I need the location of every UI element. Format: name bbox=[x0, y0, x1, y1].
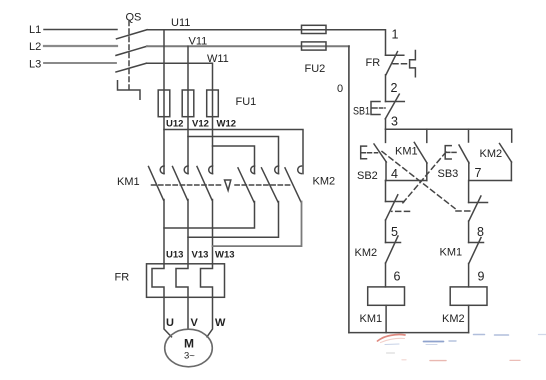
wire node4 rail bbox=[386, 180, 427, 182]
wire U11 bbox=[147, 30, 386, 56]
svg-text:L2: L2 bbox=[29, 41, 41, 53]
SB3 actuator E bbox=[445, 146, 451, 159]
wire KM1 pole2 down bbox=[187, 200, 189, 264]
svg-text:FU1: FU1 bbox=[236, 96, 257, 108]
wire KM2 pole2 to V13 bbox=[188, 202, 279, 238]
svg-text:9: 9 bbox=[478, 270, 485, 284]
wire node 6 bbox=[385, 263, 387, 287]
wire node 8 bbox=[468, 221, 470, 243]
interlock dashed SB3 to left branch bbox=[401, 152, 446, 205]
watermark remnant red swoosh bbox=[378, 335, 546, 361]
svg-text:SB1: SB1 bbox=[353, 106, 370, 118]
wire node3 rail bbox=[386, 128, 512, 130]
svg-text:U: U bbox=[166, 317, 174, 329]
wire L1 bbox=[44, 29, 117, 31]
contactor KM1 pole1 contact bbox=[160, 166, 164, 174]
contactor KM1 pole2 contact bbox=[184, 166, 188, 174]
svg-text:KM1: KM1 bbox=[360, 313, 383, 325]
wire node 3 bbox=[385, 119, 387, 129]
svg-text:QS: QS bbox=[126, 12, 142, 24]
wire node4 down bbox=[385, 181, 387, 202]
svg-text:V: V bbox=[191, 317, 199, 329]
contactor KM1 pole3 contact bbox=[209, 166, 213, 174]
pushbutton SB1 (NC stop) bbox=[386, 101, 405, 103]
svg-text:FR: FR bbox=[366, 57, 381, 69]
switch QS linkage bracket bbox=[118, 81, 141, 99]
svg-text:L3: L3 bbox=[29, 59, 41, 71]
wire node7 rail bbox=[469, 180, 512, 182]
fuse FU2 lower bbox=[302, 42, 327, 50]
contactor KM2 pole3 contact bbox=[298, 166, 302, 174]
wire L2 bbox=[44, 45, 117, 47]
svg-text:SB3: SB3 bbox=[438, 168, 459, 180]
svg-text:KM2: KM2 bbox=[355, 247, 378, 259]
fuse FU2 upper bbox=[302, 25, 327, 33]
pushbutton SB3 (NO start rev) bbox=[468, 129, 470, 142]
svg-text:V13: V13 bbox=[192, 250, 209, 261]
coil KM1 bbox=[368, 287, 405, 305]
interlock dashed SB2 to right branch bbox=[382, 152, 455, 209]
svg-text:KM2: KM2 bbox=[480, 148, 503, 160]
interlock contact KM1 (NC) bbox=[469, 242, 484, 244]
svg-text:0: 0 bbox=[337, 83, 343, 95]
fuse FU1 W bbox=[207, 90, 219, 117]
wire node7 down bbox=[468, 181, 470, 203]
svg-text:M: M bbox=[184, 337, 194, 351]
svg-text:3: 3 bbox=[391, 115, 398, 129]
svg-text:7: 7 bbox=[475, 166, 482, 180]
wire V12 to KM2 mid bbox=[188, 137, 279, 174]
wire node 9 bbox=[468, 264, 470, 287]
svg-text:U13: U13 bbox=[166, 250, 183, 261]
svg-text:V12: V12 bbox=[192, 119, 209, 130]
contactor KM2 pole1 contact bbox=[251, 166, 255, 174]
svg-text:6: 6 bbox=[394, 270, 401, 284]
svg-text:FU2: FU2 bbox=[305, 63, 326, 75]
mechanical link triangle bbox=[225, 180, 231, 190]
svg-text:L1: L1 bbox=[29, 24, 41, 36]
wire node 2 bbox=[385, 75, 387, 102]
svg-text:U11: U11 bbox=[171, 17, 190, 29]
svg-text:KM2: KM2 bbox=[442, 313, 465, 325]
switch QS blade 1 bbox=[117, 30, 148, 39]
svg-text:SB2: SB2 bbox=[357, 170, 378, 182]
wire V11 bbox=[147, 45, 349, 47]
svg-text:3~: 3~ bbox=[184, 351, 195, 362]
wire KM1 coil to rail bbox=[385, 305, 387, 332]
svg-text:U12: U12 bbox=[166, 119, 183, 130]
pushbutton SB2 NC (in KM2 branch) bbox=[469, 202, 488, 204]
svg-text:W: W bbox=[215, 317, 226, 329]
wire U11 branch down bbox=[163, 30, 165, 174]
svg-text:4: 4 bbox=[391, 167, 398, 181]
switch QS linkage dashed bbox=[128, 21, 130, 90]
heater element 2 bbox=[176, 264, 188, 298]
switch QS blade 3 bbox=[116, 63, 147, 72]
svg-text:FR: FR bbox=[115, 272, 130, 284]
svg-text:KM1: KM1 bbox=[395, 146, 418, 158]
coil KM2 bbox=[450, 287, 487, 305]
SB2 actuator E bbox=[361, 146, 367, 159]
wire KM1 pole1 down bbox=[163, 200, 165, 264]
pushbutton SB3 NC (in KM1 branch) bbox=[386, 201, 405, 203]
contactor KM2 pole2 contact bbox=[275, 166, 279, 174]
wire W12 to KM2 left bbox=[213, 146, 255, 174]
pushbutton SB2 (NO start fwd) bbox=[385, 129, 387, 142]
interlock contact KM2 (NC) bbox=[386, 242, 401, 244]
wire KM2 pole1 to U13 bbox=[164, 202, 255, 229]
wire U12 to KM2 right bbox=[164, 130, 303, 174]
wire KM1 pole3 down bbox=[212, 200, 214, 264]
watermark remnant blue marks bbox=[385, 343, 399, 346]
heater element 1 bbox=[152, 264, 164, 298]
fuse FU1 V bbox=[182, 90, 194, 117]
wire KM2 pole3 to W13 bbox=[213, 202, 302, 247]
switch QS blade 2 bbox=[116, 46, 147, 55]
heater element 3 bbox=[201, 264, 213, 298]
wire motor U bbox=[164, 297, 172, 337]
wire motor V bbox=[187, 297, 189, 328]
wire KM2 coil to rail bbox=[468, 305, 470, 332]
relay contact FR (NC) bbox=[386, 54, 404, 56]
svg-text:W12: W12 bbox=[217, 119, 237, 130]
wire node 5 bbox=[385, 220, 387, 243]
FR trip dashed link bbox=[393, 63, 409, 65]
svg-text:1: 1 bbox=[392, 28, 399, 42]
mechanical link dashed KM1-KM2 bbox=[152, 184, 222, 186]
svg-text:W13: W13 bbox=[215, 250, 235, 261]
thermal relay FR box bbox=[147, 264, 225, 298]
aux contact KM2 (hold) bbox=[511, 129, 513, 142]
SB1 actuator E bbox=[371, 102, 380, 115]
svg-text:2: 2 bbox=[391, 81, 398, 95]
svg-text:KM1: KM1 bbox=[117, 176, 140, 188]
fuse FU1 U bbox=[158, 90, 170, 117]
wire W11 bbox=[147, 63, 213, 173]
wire L3 bbox=[44, 62, 116, 64]
aux contact KM1 (hold) bbox=[426, 129, 428, 142]
FR trip detent bbox=[410, 51, 416, 77]
wire V11 branch down bbox=[187, 46, 189, 173]
wire motor W bbox=[207, 297, 213, 337]
motor M circle bbox=[165, 329, 213, 367]
svg-text:KM2: KM2 bbox=[313, 176, 336, 188]
svg-text:KM1: KM1 bbox=[440, 247, 463, 259]
wire bottom rail 0 bbox=[349, 332, 469, 334]
